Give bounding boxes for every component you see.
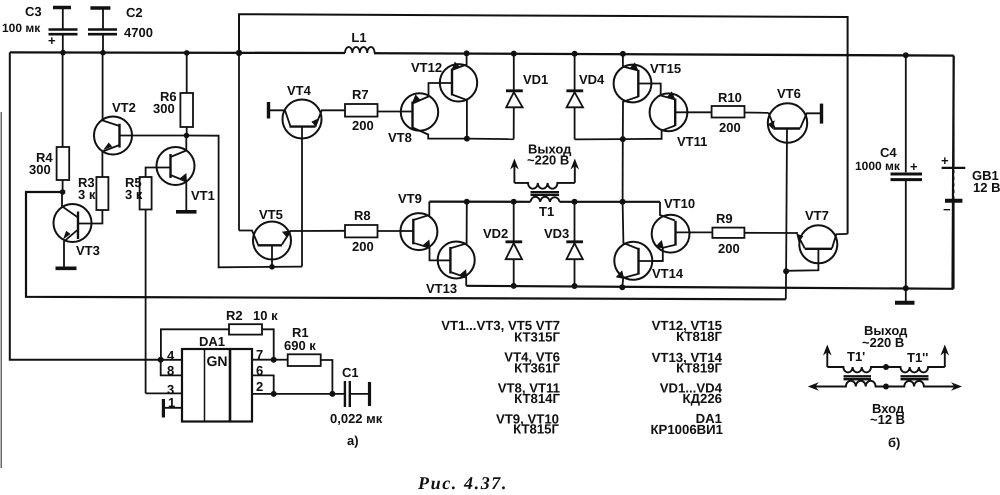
transistor VT8 bbox=[378, 83, 467, 145]
transistor VT6 bbox=[768, 86, 821, 272]
transistor VT10 bbox=[652, 196, 713, 261]
node C4 bottom on bus bbox=[903, 285, 909, 291]
node pin7 junction bbox=[271, 357, 277, 363]
svg-text:+: + bbox=[941, 153, 949, 168]
node VD3 top bbox=[572, 199, 578, 205]
wire main +12V rail bbox=[10, 52, 954, 55]
svg-text:VD2: VD2 bbox=[483, 226, 508, 241]
transformer subfig winding bottom with arrows bbox=[808, 381, 962, 391]
node VT2 base junction bbox=[184, 133, 190, 139]
diode VD4 bbox=[566, 54, 605, 140]
label subfig input 12V bbox=[870, 401, 905, 427]
pin 7 bbox=[252, 347, 274, 362]
pin 2 bbox=[252, 379, 274, 394]
node DA1 pins 4-8 junction bbox=[158, 357, 164, 363]
svg-text:VT4: VT4 bbox=[287, 83, 312, 98]
svg-text:300: 300 bbox=[29, 162, 51, 177]
label parts list column 1 bbox=[441, 318, 560, 437]
transistor VT14 bbox=[614, 202, 684, 287]
node primary rail left bbox=[464, 199, 470, 205]
transformer T1' winding top bbox=[827, 349, 886, 372]
svg-text:200: 200 bbox=[718, 241, 740, 256]
transformer subfig core left bbox=[844, 376, 872, 379]
inductor L1 bbox=[345, 30, 375, 53]
svg-text:VD1: VD1 bbox=[523, 72, 548, 87]
pin 3 bbox=[146, 382, 182, 397]
svg-text:а): а) bbox=[347, 433, 359, 448]
svg-text:0,022 мк: 0,022 мк bbox=[330, 411, 383, 426]
diode VD2 bbox=[483, 202, 522, 286]
capacitor C1 bbox=[330, 365, 383, 426]
node rail junction R6 bbox=[184, 50, 190, 56]
ground VT1 bbox=[176, 210, 197, 214]
svg-text:3 к: 3 к bbox=[78, 187, 96, 202]
battery GB1 bbox=[941, 56, 1000, 289]
svg-text:VT11: VT11 bbox=[677, 134, 707, 149]
svg-text:КТ315Г: КТ315Г bbox=[514, 330, 560, 345]
terminal output arrow right bbox=[571, 159, 580, 183]
resistor R9 bbox=[712, 211, 798, 256]
svg-text:300: 300 bbox=[153, 101, 175, 116]
node rail junction VD4 bbox=[572, 51, 578, 57]
svg-text:VT8: VT8 bbox=[388, 130, 412, 145]
transistor VT4 bbox=[269, 83, 346, 267]
svg-text:4700: 4700 bbox=[124, 25, 153, 40]
svg-text:7: 7 bbox=[256, 347, 263, 362]
svg-text:T1'': T1'' bbox=[907, 350, 928, 365]
node rail junction C4 bbox=[903, 52, 909, 58]
resistor R10 bbox=[712, 90, 769, 135]
node R1 to C1 junction bbox=[329, 391, 335, 397]
svg-text:T1': T1' bbox=[847, 349, 865, 364]
svg-text:200: 200 bbox=[719, 120, 741, 135]
node rail junction C3 bbox=[60, 50, 66, 56]
svg-text:R9: R9 bbox=[716, 211, 733, 226]
node pin2 junction bbox=[271, 391, 277, 397]
transformer T1 primary winding bbox=[531, 197, 560, 219]
terminal C1 right bbox=[368, 382, 371, 406]
svg-text:VT14: VT14 bbox=[652, 266, 684, 281]
svg-text:10 к: 10 к bbox=[253, 308, 278, 323]
svg-text:C4: C4 bbox=[880, 145, 897, 160]
svg-text:VD3: VD3 bbox=[544, 226, 569, 241]
node subfig top center bbox=[883, 364, 889, 370]
wire node to VD1 bottom bbox=[467, 138, 514, 141]
label subfig output 220V bbox=[862, 323, 908, 350]
node VT5 emitter junction bbox=[269, 264, 275, 270]
scan edge artifact left bbox=[0, 112, 2, 468]
svg-text:КТ818Г: КТ818Г bbox=[676, 329, 722, 344]
svg-text:L1: L1 bbox=[351, 30, 366, 45]
node VD2 top bbox=[511, 199, 517, 205]
transistor VT12 bbox=[411, 53, 477, 138]
svg-text:VT12: VT12 bbox=[411, 60, 442, 75]
resistor R3 bbox=[78, 152, 108, 211]
svg-text:200: 200 bbox=[352, 239, 374, 254]
svg-text:VT6: VT6 bbox=[777, 86, 801, 101]
resistor R7 bbox=[345, 87, 378, 133]
svg-text:200: 200 bbox=[352, 118, 374, 133]
svg-text:б): б) bbox=[888, 435, 900, 450]
node VD3 bottom bbox=[572, 283, 578, 289]
svg-text:КТ819Г: КТ819Г bbox=[676, 361, 722, 376]
svg-text:КТ361Г: КТ361Г bbox=[514, 361, 560, 376]
node collector junction right bbox=[620, 136, 626, 142]
svg-text:R2: R2 bbox=[226, 308, 243, 323]
wire long bottom return line bbox=[26, 192, 786, 299]
resistor R1 bbox=[274, 325, 333, 394]
node rail junction C2 bbox=[100, 50, 106, 56]
svg-text:C2: C2 bbox=[126, 5, 143, 20]
svg-text:КТ814Г: КТ814Г bbox=[514, 391, 560, 406]
svg-text:12 В: 12 В bbox=[973, 180, 1000, 195]
svg-text:690 к: 690 к bbox=[284, 338, 316, 353]
wire left border to DA1 pins 4,8 bbox=[10, 52, 161, 359]
svg-text:R8: R8 bbox=[354, 208, 371, 223]
node primary rail x622 bbox=[620, 199, 626, 205]
svg-text:КД226: КД226 bbox=[683, 391, 722, 406]
svg-text:~220 В: ~220 В bbox=[527, 153, 569, 168]
wire ground bus bbox=[466, 56, 954, 289]
resistor R6 bbox=[153, 53, 193, 136]
svg-text:VT9: VT9 bbox=[398, 191, 422, 206]
svg-text:VT5: VT5 bbox=[259, 207, 283, 222]
svg-text:VT13: VT13 bbox=[426, 281, 457, 296]
pin 8 bbox=[161, 360, 182, 378]
svg-text:+: + bbox=[910, 159, 918, 174]
transistor VT9 bbox=[398, 191, 438, 260]
svg-text:8: 8 bbox=[167, 363, 174, 378]
svg-text:GN: GN bbox=[207, 353, 228, 369]
resistor R8 bbox=[345, 208, 401, 254]
svg-text:DA1: DA1 bbox=[199, 334, 225, 349]
node VT7 base junction bbox=[783, 268, 789, 274]
op-amp U1 timer DA1 box bbox=[182, 334, 252, 422]
node subfig bottom center bbox=[883, 384, 889, 390]
label parts list column 2 bbox=[650, 318, 723, 437]
pin 1 bbox=[163, 395, 182, 410]
svg-text:КР1006ВИ1: КР1006ВИ1 bbox=[650, 422, 723, 437]
node VT14 emitter on bus bbox=[619, 284, 625, 290]
terminal VT4 input bbox=[267, 102, 270, 119]
node VD2 bottom bbox=[511, 283, 517, 289]
wire primary rail bbox=[429, 201, 660, 203]
capacitor C4 bbox=[855, 55, 922, 288]
svg-text:4: 4 bbox=[167, 348, 175, 363]
transformer T1 secondary winding bbox=[514, 183, 574, 189]
wire VT2 base node to VT5 emitter line bbox=[187, 136, 303, 268]
svg-text:~220 В: ~220 В bbox=[862, 335, 904, 350]
node R4 bottom junction bbox=[60, 189, 66, 195]
wire pin2 to C1 bbox=[274, 393, 345, 395]
wire top feedback line bbox=[239, 14, 848, 234]
label output 220V bbox=[527, 142, 572, 168]
terminal pin1 ground bar bbox=[162, 399, 165, 418]
svg-text:VT1: VT1 bbox=[191, 188, 215, 203]
transformer subfig core right bbox=[901, 376, 929, 379]
svg-text:VT7: VT7 bbox=[805, 208, 829, 223]
node rail junction VT15 bbox=[620, 51, 626, 57]
svg-text:−: − bbox=[943, 202, 951, 217]
terminal subfig arrow up right bbox=[941, 345, 950, 368]
resistor R5 bbox=[125, 175, 152, 393]
svg-text:100 мк: 100 мк bbox=[2, 21, 41, 35]
svg-text:1: 1 bbox=[168, 395, 175, 410]
wire VT7 base node down to long line bbox=[785, 271, 787, 299]
svg-text:~12 В: ~12 В bbox=[870, 412, 905, 427]
resistor R4 bbox=[29, 53, 69, 192]
svg-text:VT2: VT2 bbox=[112, 100, 136, 115]
pin 6 bbox=[252, 363, 274, 394]
capacitor C2 bbox=[88, 5, 153, 53]
svg-text:КТ815Г: КТ815Г bbox=[513, 422, 559, 437]
svg-text:C1: C1 bbox=[342, 365, 359, 380]
terminal output arrow left bbox=[510, 159, 519, 183]
ground main bbox=[895, 288, 915, 303]
terminal VT6 output bbox=[820, 104, 823, 124]
transistor VT1 bbox=[146, 136, 215, 211]
svg-text:R7: R7 bbox=[352, 87, 369, 102]
svg-text:2: 2 bbox=[256, 379, 263, 394]
wire VD4 bottom to right collector node bbox=[575, 138, 623, 140]
svg-text:1000 мк: 1000 мк bbox=[855, 159, 901, 173]
svg-text:3 к: 3 к bbox=[125, 187, 143, 202]
svg-text:VT15: VT15 bbox=[650, 61, 681, 76]
svg-text:T1: T1 bbox=[539, 204, 554, 219]
svg-text:C3: C3 bbox=[25, 4, 42, 19]
transistor VT2 bbox=[94, 53, 187, 155]
svg-text:R10: R10 bbox=[718, 90, 742, 105]
svg-text:6: 6 bbox=[256, 363, 263, 378]
resistor R2 bbox=[161, 308, 278, 360]
node rail junction VT5 base line bbox=[236, 50, 242, 56]
transistor VT13 bbox=[426, 202, 475, 296]
capacitor C3 bbox=[2, 4, 78, 53]
transistor VT3 bbox=[54, 192, 103, 267]
transistor VT11 bbox=[623, 91, 712, 149]
svg-text:Рис. 4.37.: Рис. 4.37. bbox=[417, 473, 508, 493]
transistor VT15 bbox=[614, 54, 681, 139]
transformer T1'' winding top bbox=[886, 350, 945, 372]
diode VD1 bbox=[506, 54, 548, 140]
node collector junction left bbox=[464, 136, 470, 142]
pin 4 bbox=[161, 348, 182, 363]
terminal subfig arrow up left bbox=[823, 345, 832, 368]
node rail junction VT12 bbox=[464, 50, 470, 56]
diode VD3 bbox=[544, 202, 583, 286]
svg-text:VT10: VT10 bbox=[664, 196, 695, 211]
transistor VT5 bbox=[239, 207, 345, 267]
wire VT5 base vertical bbox=[238, 53, 240, 231]
svg-text:VD4: VD4 bbox=[579, 72, 605, 87]
node rail junction VD1 bbox=[511, 51, 517, 57]
wire right collector node down to primary rail bbox=[622, 139, 624, 202]
transformer T1 core bbox=[531, 192, 560, 195]
transistor VT7 bbox=[786, 208, 848, 271]
svg-text:+: + bbox=[48, 33, 56, 48]
svg-text:VT3: VT3 bbox=[76, 243, 100, 258]
ground VT3 bbox=[56, 266, 77, 270]
